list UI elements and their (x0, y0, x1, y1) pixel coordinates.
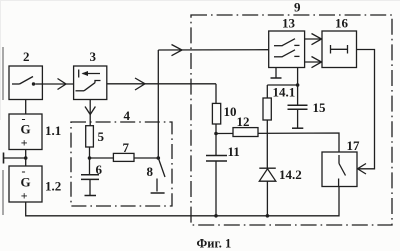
svg-text:1.2: 1.2 (45, 179, 61, 194)
scan frame artifact (0, 0, 400, 120)
bottom wire (26, 187, 339, 218)
top wire to block 13 with arrow (158, 45, 268, 56)
resistor 14.1 (263, 98, 271, 120)
dash-dot frame 4 (71, 122, 172, 206)
resistor 12 (233, 128, 258, 137)
wire R14.1 to diode (266, 120, 268, 168)
wire block2 to G1.1 (25, 100, 27, 115)
svg-text:Фиг. 1: Фиг. 1 (197, 237, 232, 251)
svg-text:7: 7 (123, 140, 130, 155)
node between G1.1 and G1.2 (24, 150, 28, 167)
node B (R10/R12/C11) (214, 124, 218, 135)
capacitor 11 (206, 134, 227, 216)
svg-text:4: 4 (124, 108, 131, 123)
generator G 1.1 (9, 114, 42, 150)
capacitor 6 (81, 158, 99, 196)
node A (R5/C6/R7) (88, 147, 159, 160)
resistor 5 (86, 126, 94, 147)
svg-text:G: G (21, 175, 31, 190)
switch 8 (151, 156, 165, 193)
page edge line (2, 47, 4, 215)
wire riser to node of switch 8 (157, 50, 159, 158)
ground under block 13 (271, 68, 282, 79)
svg-text:13: 13 (282, 16, 296, 31)
svg-text:11: 11 (228, 144, 240, 159)
svg-text:10: 10 (224, 104, 237, 119)
svg-text:14.2: 14.2 (279, 167, 302, 182)
wire block16 to block17 with arrow (357, 50, 375, 175)
left terminal (4, 153, 26, 164)
wire riser to resistor 10 (215, 84, 217, 104)
block 13 leg to node C (267, 68, 299, 106)
block 17 (322, 152, 357, 187)
block 13 (269, 31, 305, 68)
block 3 (74, 66, 107, 100)
block3 down arrow into frame 4 (85, 100, 95, 126)
svg-text:15: 15 (313, 100, 327, 115)
svg-text:9: 9 (294, 0, 301, 15)
svg-text:6: 6 (96, 162, 103, 177)
wire block3 right with arrow (107, 78, 216, 90)
svg-text:5: 5 (98, 129, 105, 144)
svg-text:+: + (21, 189, 28, 203)
wire node B to block 17 (216, 133, 339, 152)
capacitor 15 (288, 105, 308, 128)
block 2 (9, 66, 42, 100)
generator G 1.2 (9, 166, 42, 202)
svg-text:G: G (21, 122, 31, 137)
svg-text:16: 16 (335, 16, 349, 31)
block 16 (322, 31, 357, 68)
svg-text:2: 2 (23, 49, 30, 64)
svg-text:17: 17 (347, 138, 361, 153)
svg-text:1.1: 1.1 (45, 123, 61, 138)
svg-text:+: + (21, 136, 28, 150)
svg-text:8: 8 (147, 164, 154, 179)
resistor 10 (212, 103, 220, 124)
svg-text:12: 12 (237, 114, 250, 129)
diode 14.2 (259, 168, 276, 216)
svg-text:3: 3 (90, 49, 97, 64)
resistor 7 (113, 153, 134, 161)
svg-text:14.1: 14.1 (273, 85, 296, 100)
arrows block13 to block16 (305, 34, 322, 68)
wire block2 to block3 with arrow (42, 79, 73, 90)
dash-dot frame 9 (191, 15, 392, 225)
